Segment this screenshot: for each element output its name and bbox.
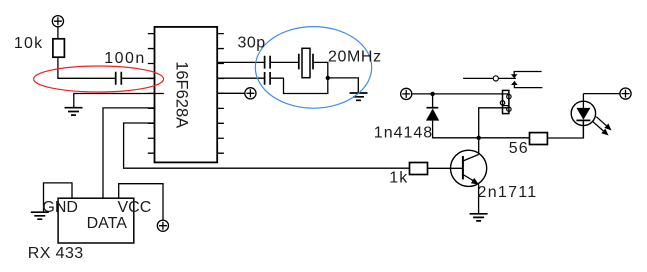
svg-text:DATA: DATA: [87, 215, 128, 232]
svg-text:16F628A: 16F628A: [172, 61, 190, 128]
svg-text:VCC: VCC: [118, 199, 152, 216]
svg-text:100n: 100n: [104, 50, 146, 67]
svg-text:10k: 10k: [14, 35, 43, 52]
svg-text:56: 56: [509, 140, 529, 157]
svg-text:1n4148: 1n4148: [374, 124, 433, 141]
svg-text:2n1711: 2n1711: [478, 184, 538, 201]
svg-text:30p: 30p: [238, 34, 266, 51]
svg-text:1k: 1k: [389, 169, 408, 186]
svg-text:GND: GND: [42, 199, 78, 216]
svg-text:20MHz: 20MHz: [328, 48, 382, 65]
svg-text:RX 433: RX 433: [28, 245, 84, 262]
